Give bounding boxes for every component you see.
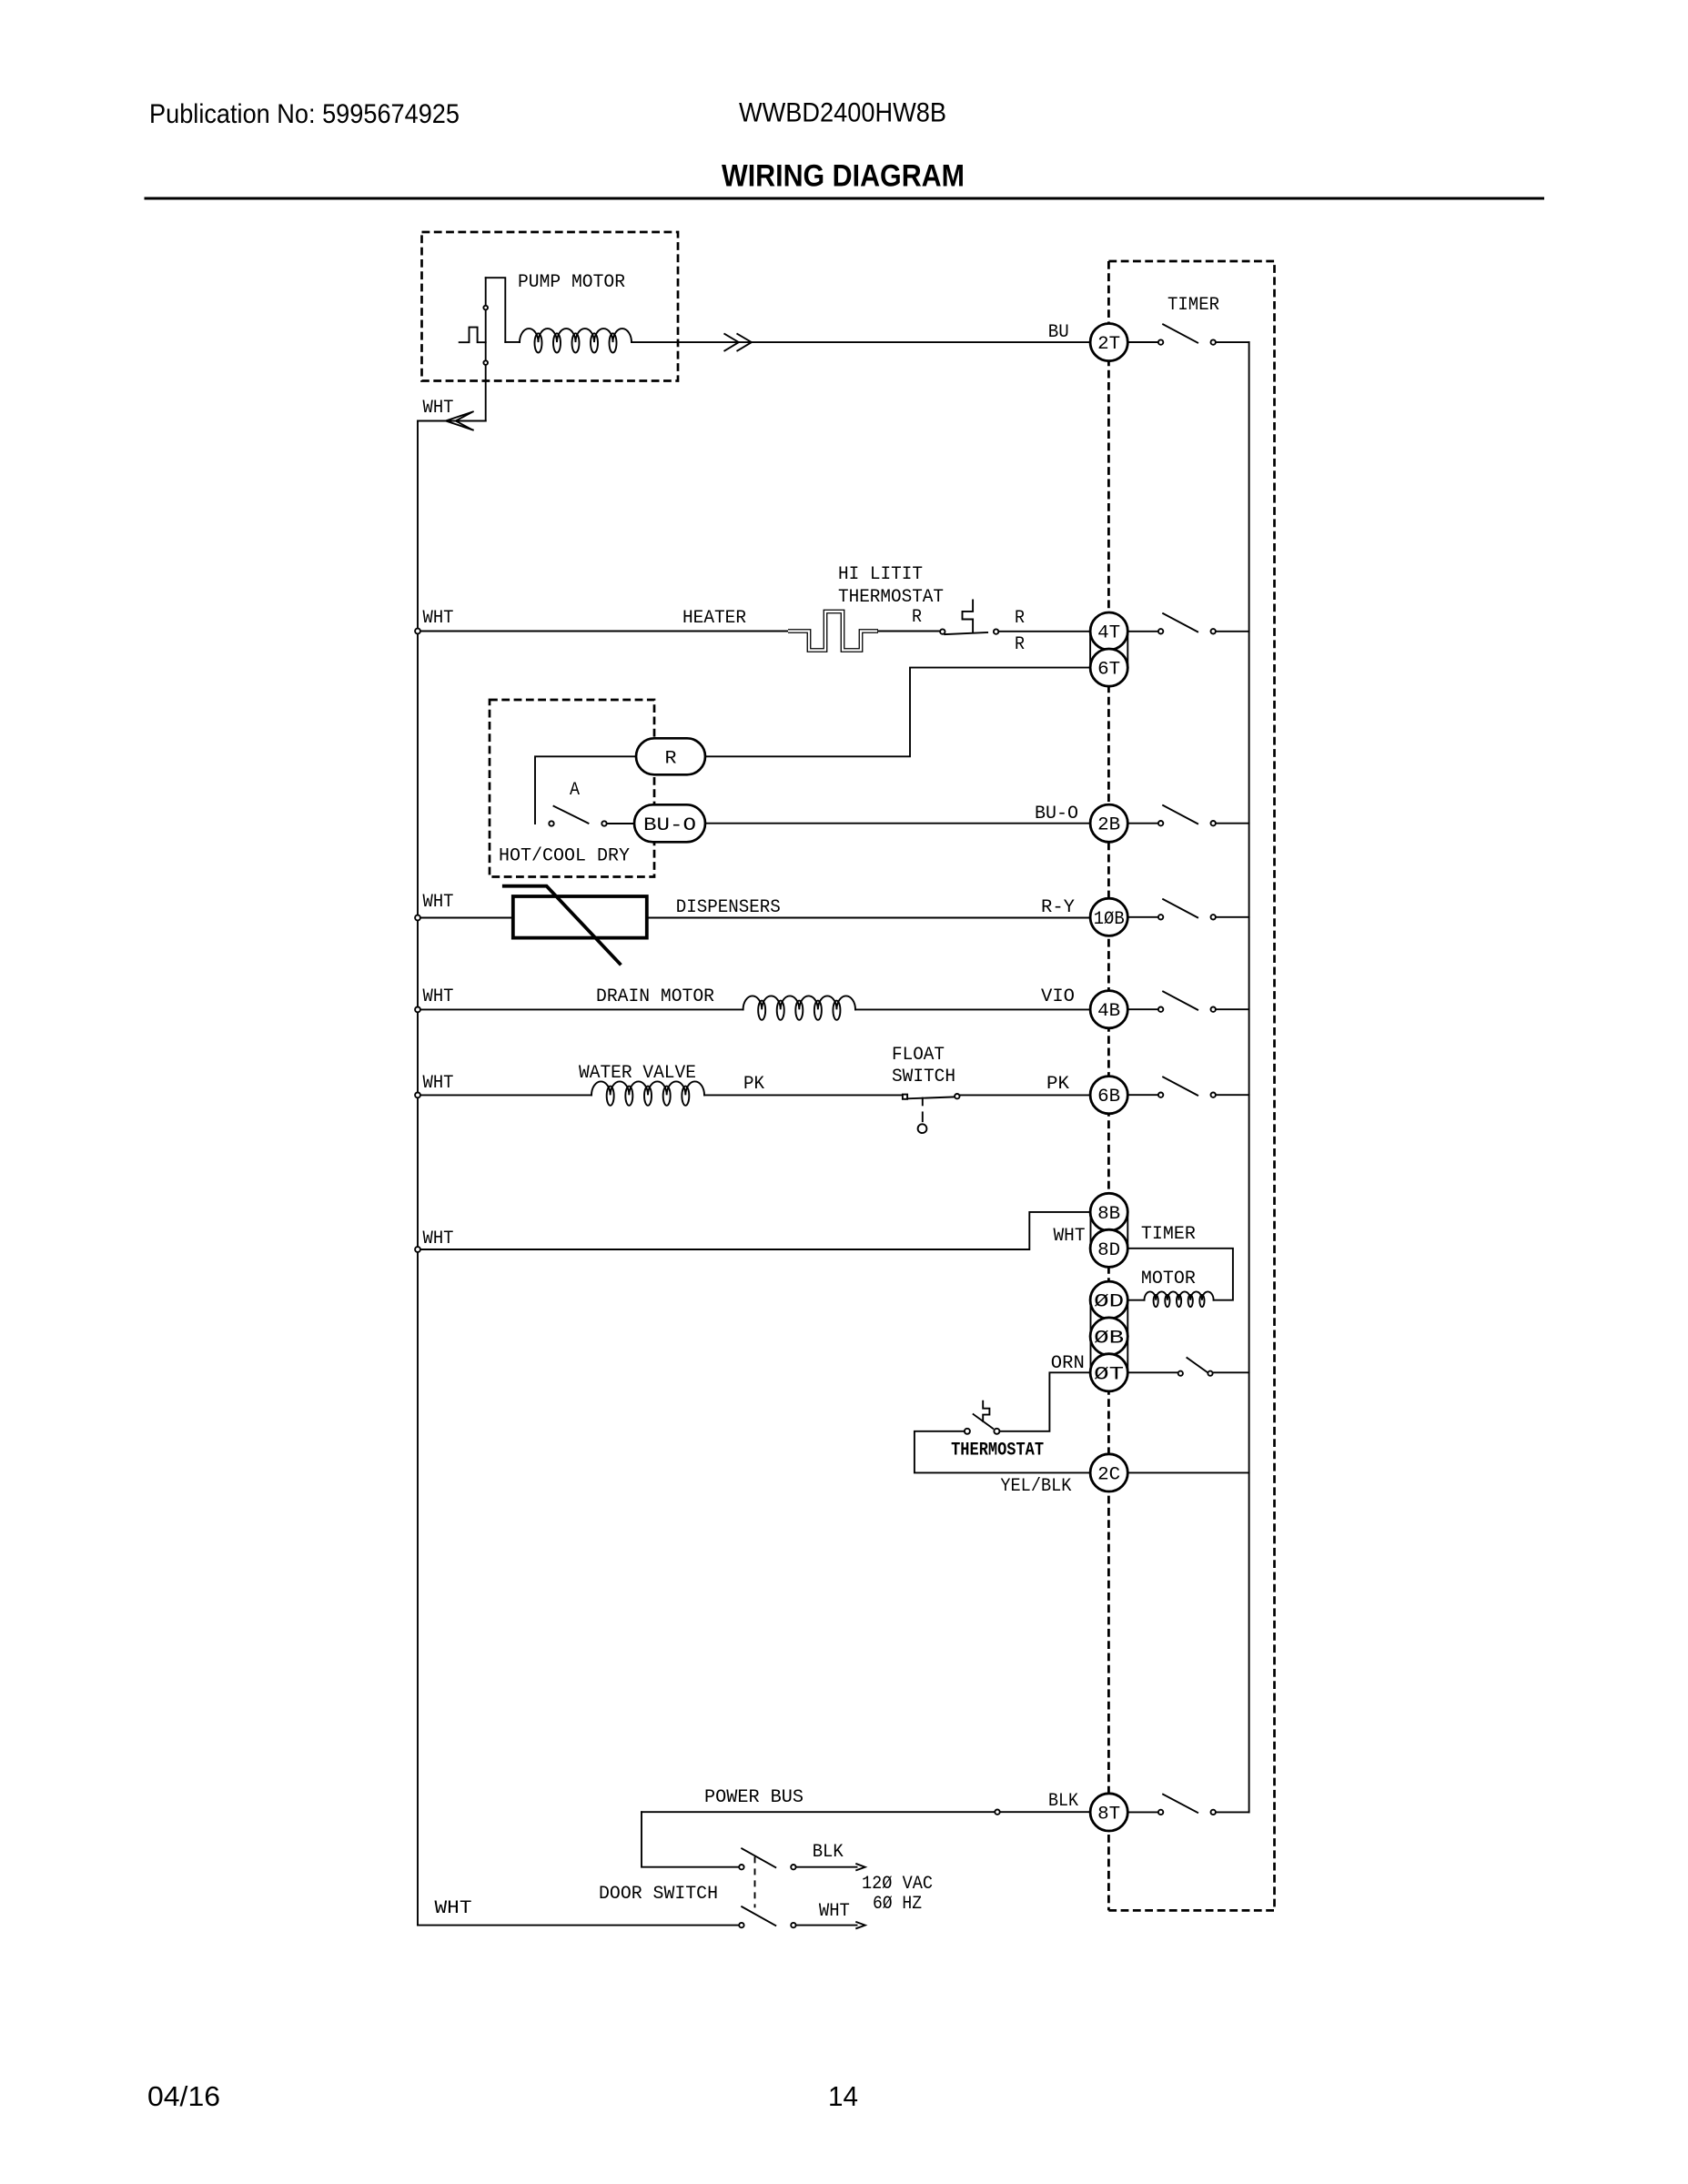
svg-text:ØD: ØD: [1094, 1292, 1124, 1313]
svg-text:4B: 4B: [1097, 1001, 1120, 1022]
svg-text:ØT: ØT: [1094, 1364, 1124, 1385]
svg-text:WHT: WHT: [423, 1073, 454, 1094]
svg-text:4T: 4T: [1097, 623, 1120, 644]
svg-text:8T: 8T: [1097, 1804, 1120, 1825]
svg-text:12Ø VAC: 12Ø VAC: [862, 1874, 933, 1895]
svg-text:FLOAT: FLOAT: [892, 1045, 945, 1066]
svg-text:BU-O: BU-O: [1035, 804, 1078, 824]
svg-text:R: R: [1015, 634, 1025, 655]
svg-text:SWITCH: SWITCH: [892, 1067, 955, 1087]
svg-text:DISPENSERS: DISPENSERS: [676, 897, 781, 918]
svg-text:HOT/COOL DRY: HOT/COOL DRY: [499, 846, 630, 867]
svg-text:04/16: 04/16: [147, 2080, 220, 2112]
svg-text:1ØB: 1ØB: [1094, 909, 1125, 930]
svg-text:R-Y: R-Y: [1041, 897, 1075, 918]
svg-text:WATER VALVE: WATER VALVE: [579, 1063, 696, 1084]
svg-text:WHT: WHT: [423, 986, 454, 1007]
svg-text:R: R: [1015, 608, 1025, 629]
svg-text:WHT: WHT: [423, 398, 454, 419]
svg-text:WHT: WHT: [423, 892, 454, 913]
svg-text:TIMER: TIMER: [1167, 295, 1219, 316]
svg-text:2C: 2C: [1097, 1464, 1120, 1485]
svg-text:WHT: WHT: [435, 1898, 472, 1919]
svg-text:POWER BUS: POWER BUS: [704, 1787, 804, 1808]
svg-text:Publication No: 5995674925: Publication No: 5995674925: [149, 99, 460, 129]
svg-text:THERMOSTAT: THERMOSTAT: [838, 587, 944, 608]
svg-text:BLK: BLK: [1048, 1791, 1078, 1812]
svg-text:WIRING DIAGRAM: WIRING DIAGRAM: [722, 159, 965, 194]
svg-text:WWBD2400HW8B: WWBD2400HW8B: [739, 98, 946, 128]
svg-text:VIO: VIO: [1041, 986, 1075, 1007]
svg-text:8B: 8B: [1097, 1204, 1120, 1225]
svg-text:6T: 6T: [1097, 660, 1120, 681]
svg-text:PK: PK: [1046, 1074, 1069, 1095]
svg-text:TIMER: TIMER: [1141, 1224, 1196, 1245]
svg-text:BU: BU: [1048, 322, 1069, 343]
svg-text:DOOR SWITCH: DOOR SWITCH: [599, 1884, 718, 1905]
svg-text:HI LITIT: HI LITIT: [838, 564, 923, 585]
svg-text:R: R: [912, 607, 922, 628]
svg-text:8D: 8D: [1097, 1240, 1120, 1261]
svg-text:DRAIN MOTOR: DRAIN MOTOR: [596, 986, 714, 1007]
svg-text:PUMP MOTOR: PUMP MOTOR: [518, 272, 625, 293]
svg-text:ØB: ØB: [1094, 1329, 1124, 1350]
svg-text:WHT: WHT: [819, 1901, 850, 1922]
svg-text:WHT: WHT: [423, 608, 454, 629]
svg-text:2B: 2B: [1097, 815, 1120, 836]
svg-text:BLK: BLK: [813, 1842, 844, 1863]
svg-text:2T: 2T: [1097, 334, 1120, 355]
svg-text:PK: PK: [743, 1074, 764, 1095]
svg-text:WHT: WHT: [423, 1228, 454, 1249]
svg-text:MOTOR: MOTOR: [1141, 1269, 1196, 1289]
svg-text:A: A: [570, 780, 580, 801]
svg-text:R: R: [665, 748, 677, 769]
svg-text:THERMOSTAT: THERMOSTAT: [951, 1441, 1044, 1461]
svg-text:YEL/BLK: YEL/BLK: [1000, 1476, 1071, 1497]
svg-text:HEATER: HEATER: [682, 608, 746, 629]
svg-text:WHT: WHT: [1054, 1226, 1086, 1247]
svg-text:6Ø HZ: 6Ø HZ: [873, 1894, 922, 1915]
svg-text:14: 14: [828, 2080, 858, 2112]
svg-text:ORN: ORN: [1051, 1353, 1085, 1374]
svg-text:BU-O: BU-O: [643, 815, 696, 836]
svg-text:6B: 6B: [1097, 1087, 1120, 1107]
